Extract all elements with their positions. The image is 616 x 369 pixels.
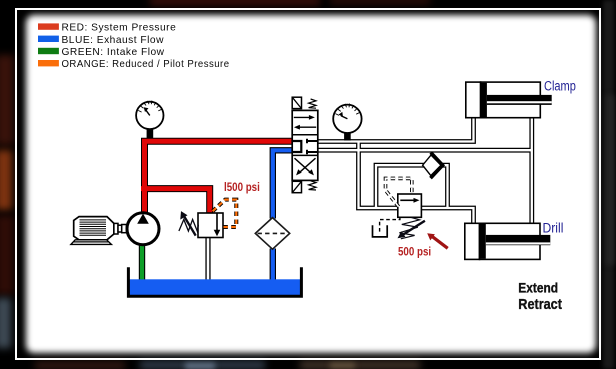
red branch pipe to relief valve — [145, 189, 210, 214]
legend text — [62, 23, 230, 71]
svg-text:Extend: Extend — [518, 280, 558, 296]
DCV1 position 1 parallel arrows — [294, 116, 312, 118]
DCV1 center position blocked port A — [307, 139, 317, 144]
PRV1 pilot line (double dashed) — [386, 178, 412, 206]
wire reducing-valve feed — [359, 142, 398, 209]
legend swatch green — [38, 48, 59, 54]
filter F1 — [255, 218, 289, 250]
electric motor M1 — [71, 217, 127, 245]
wire relief-valve drain to tank — [205, 237, 210, 281]
blue exhaust pipe: valve T port to filter to tank — [273, 150, 293, 282]
PRV1 spring — [399, 218, 419, 239]
check valve CV1 — [423, 153, 443, 179]
svg-text:Retract: Retract — [518, 296, 562, 312]
legend swatch blue — [38, 36, 59, 42]
svg-text:BLUE: Exhaust Flow: BLUE: Exhaust Flow — [62, 35, 165, 46]
DCV1 center position tandem bracket — [293, 141, 301, 152]
PRV1 drain dashed line — [380, 217, 400, 231]
relief valve spring — [179, 220, 199, 232]
relief valve orange pilot line — [213, 200, 237, 227]
wire check-valve branch right — [439, 165, 448, 208]
wire check-valve branch left — [376, 165, 424, 208]
wire A-line — [318, 118, 474, 142]
red system-pressure pipe: pump to valve P port — [145, 141, 293, 213]
wire A-line outline (valve A port to clamp cap port) — [318, 118, 476, 144]
pressure gauge G2 — [333, 104, 361, 141]
reservoir tank — [128, 267, 301, 296]
svg-text:ORANGE: Reduced / Pilot Pressu: ORANGE: Reduced / Pilot Pressure — [62, 59, 230, 70]
svg-text:Clamp: Clamp — [544, 78, 576, 93]
DCV1 top solenoid — [292, 97, 301, 108]
DCV1 bottom solenoid — [292, 181, 301, 192]
DCV1 top spring — [309, 99, 316, 108]
directional control valve DCV1 body — [292, 97, 318, 193]
clamp cylinder CYL1 — [466, 82, 552, 118]
legend swatch red — [38, 23, 59, 29]
pressure reducing valve PRV1 — [373, 178, 425, 238]
DCV1 bottom spring — [309, 181, 316, 190]
annotation arrow to PRV1 spring — [427, 233, 448, 248]
wire cores (white) — [318, 118, 474, 142]
svg-text:RED: System Pressure: RED: System Pressure — [62, 23, 177, 34]
svg-text:Drill: Drill — [543, 220, 564, 236]
svg-text:500 psi: 500 psi — [398, 246, 431, 259]
wire reduced-pressure output to drill cap port — [421, 208, 473, 223]
background photo blobs — [0, 55, 14, 145]
green intake pipe: tank to pump — [139, 244, 145, 282]
PRV1 drain tank symbol — [373, 225, 388, 237]
wire B-line — [318, 148, 532, 153]
relief valve RV1 — [179, 200, 236, 238]
pressure gauge G1 — [136, 101, 163, 138]
svg-text:GREEN: Intake Flow: GREEN: Intake Flow — [62, 47, 165, 58]
DCV1 position 3 crossed arrows — [295, 158, 312, 173]
svg-text:l500 psi: l500 psi — [224, 181, 260, 194]
drill cylinder CYL2 — [465, 223, 551, 259]
wire clamp-drill riser — [529, 118, 534, 224]
DCV1 center position blocked port B — [307, 150, 317, 155]
pump P1 — [127, 213, 159, 245]
legend swatch orange — [38, 60, 59, 66]
